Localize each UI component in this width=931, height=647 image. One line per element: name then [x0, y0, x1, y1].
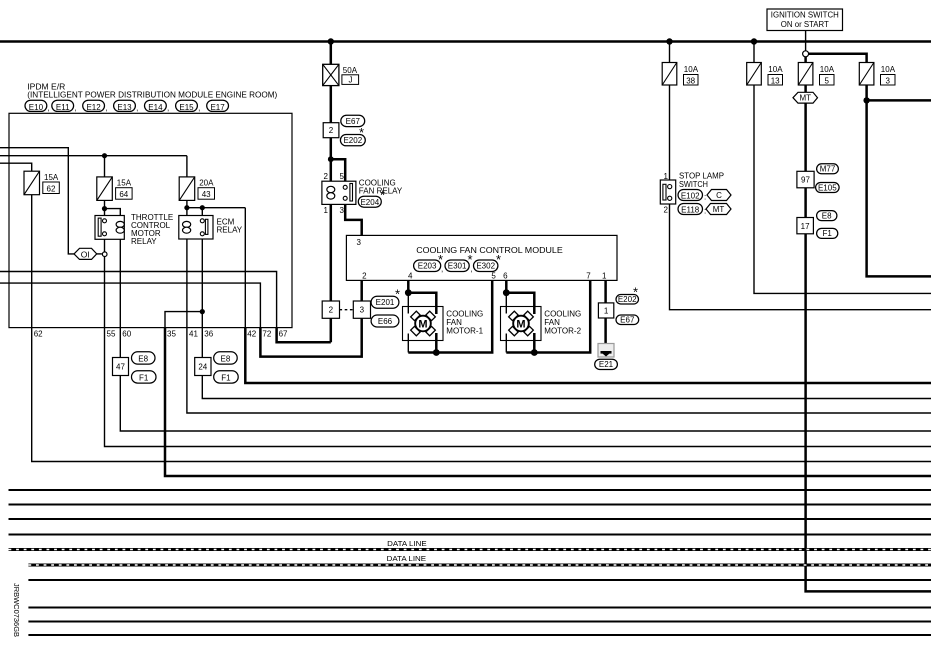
svg-text:60: 60 [122, 329, 131, 338]
svg-text:M77: M77 [820, 165, 836, 174]
svg-text:RELAY: RELAY [217, 226, 243, 235]
svg-text::: : [704, 206, 706, 215]
svg-text:41: 41 [189, 329, 198, 338]
svg-text:J: J [349, 76, 353, 85]
svg-text:F1: F1 [221, 374, 231, 383]
svg-text:*: * [438, 252, 443, 267]
svg-text:5: 5 [491, 272, 496, 281]
svg-text:13: 13 [771, 76, 780, 85]
svg-text:7: 7 [586, 272, 591, 281]
svg-text:,: , [198, 104, 200, 113]
svg-text:E21: E21 [599, 360, 614, 369]
svg-text:1: 1 [664, 172, 669, 181]
svg-text:,: , [105, 104, 107, 113]
svg-text:OI: OI [81, 249, 90, 259]
svg-text:43: 43 [202, 190, 211, 199]
svg-text:1: 1 [604, 307, 609, 316]
svg-text:IGNITION SWITCH: IGNITION SWITCH [771, 11, 839, 20]
svg-text:3: 3 [885, 76, 890, 85]
svg-text:47: 47 [116, 363, 125, 372]
svg-text:42: 42 [247, 329, 256, 338]
svg-text:2: 2 [329, 306, 334, 315]
svg-text:C: C [716, 191, 722, 200]
svg-text:E17: E17 [210, 103, 225, 112]
svg-text:E66: E66 [378, 317, 393, 326]
svg-text:M: M [418, 319, 427, 331]
svg-text:10A: 10A [881, 65, 896, 74]
svg-text:E14: E14 [148, 103, 163, 112]
svg-text:15A: 15A [117, 179, 132, 188]
svg-text:E301: E301 [448, 262, 467, 271]
svg-text:,: , [167, 104, 169, 113]
svg-text:E102: E102 [681, 191, 700, 200]
svg-text:10A: 10A [768, 65, 783, 74]
svg-text:(INTELLIGENT POWER DISTRIBUTIO: (INTELLIGENT POWER DISTRIBUTION MODULE E… [27, 90, 277, 99]
svg-text:50A: 50A [343, 66, 358, 75]
svg-text:*: * [633, 285, 638, 300]
svg-text:F1: F1 [139, 374, 149, 383]
svg-text:E8: E8 [221, 355, 231, 364]
svg-text:E15: E15 [179, 103, 194, 112]
svg-text::: : [704, 192, 706, 201]
svg-text:62: 62 [34, 329, 43, 338]
svg-text:E203: E203 [418, 262, 437, 271]
svg-text:10A: 10A [820, 65, 835, 74]
svg-text:F1: F1 [823, 229, 833, 238]
svg-text:1: 1 [324, 206, 329, 215]
svg-text:ON or START: ON or START [781, 20, 829, 29]
svg-text:E12: E12 [86, 103, 101, 112]
svg-text:2: 2 [329, 126, 334, 135]
svg-text:38: 38 [686, 76, 695, 85]
svg-text:E13: E13 [117, 103, 132, 112]
svg-text:E201: E201 [376, 298, 395, 307]
svg-text:55: 55 [107, 329, 116, 338]
svg-text:E8: E8 [138, 355, 148, 364]
svg-text:72: 72 [262, 329, 271, 338]
svg-text:MOTOR-2: MOTOR-2 [544, 327, 581, 336]
svg-text:*: * [359, 125, 364, 140]
svg-text:67: 67 [279, 329, 288, 338]
svg-text:62: 62 [47, 184, 56, 193]
svg-text:,: , [136, 104, 138, 113]
svg-text:97: 97 [801, 176, 810, 185]
svg-text:6: 6 [503, 272, 508, 281]
svg-text:15A: 15A [44, 173, 59, 182]
svg-text:E118: E118 [681, 205, 700, 214]
svg-text:DATA LINE: DATA LINE [387, 541, 427, 548]
svg-text:2: 2 [664, 205, 669, 214]
svg-text:E8: E8 [822, 211, 832, 220]
svg-text:,: , [48, 104, 50, 113]
svg-text:3: 3 [356, 238, 361, 247]
svg-text:*: * [496, 252, 501, 267]
svg-text:MT: MT [800, 94, 812, 103]
svg-text:2: 2 [324, 172, 329, 181]
svg-text:1: 1 [602, 272, 607, 281]
svg-text:RELAY: RELAY [131, 237, 157, 246]
svg-text:M: M [516, 319, 525, 331]
svg-text:17: 17 [801, 222, 810, 231]
svg-text:36: 36 [204, 329, 213, 338]
svg-text:20A: 20A [199, 179, 214, 188]
svg-text:*: * [395, 287, 400, 302]
svg-text:3: 3 [339, 206, 344, 215]
svg-text:*: * [380, 188, 385, 203]
svg-text:E302: E302 [476, 262, 495, 271]
svg-text:MOTOR-1: MOTOR-1 [446, 327, 483, 336]
svg-text:35: 35 [167, 329, 176, 338]
svg-text:DATA LINE: DATA LINE [387, 556, 427, 563]
svg-text:64: 64 [119, 190, 128, 199]
svg-text:SWITCH: SWITCH [679, 180, 708, 189]
svg-text:MT: MT [713, 205, 725, 214]
svg-text:2: 2 [362, 272, 367, 281]
svg-text:E11: E11 [56, 103, 70, 112]
svg-text:E204: E204 [360, 198, 379, 207]
svg-text:E10: E10 [29, 103, 44, 112]
svg-text:10A: 10A [684, 65, 699, 74]
svg-text:E105: E105 [818, 183, 837, 192]
svg-text:,: , [74, 104, 76, 113]
svg-text:24: 24 [198, 363, 207, 372]
svg-text:E67: E67 [620, 316, 635, 325]
svg-text:5: 5 [824, 76, 829, 85]
svg-text:5: 5 [339, 172, 344, 181]
svg-text:*: * [467, 252, 472, 267]
svg-text:4: 4 [408, 272, 413, 281]
svg-text:JRBWC0736GB: JRBWC0736GB [12, 583, 19, 637]
svg-text:3: 3 [360, 306, 365, 315]
